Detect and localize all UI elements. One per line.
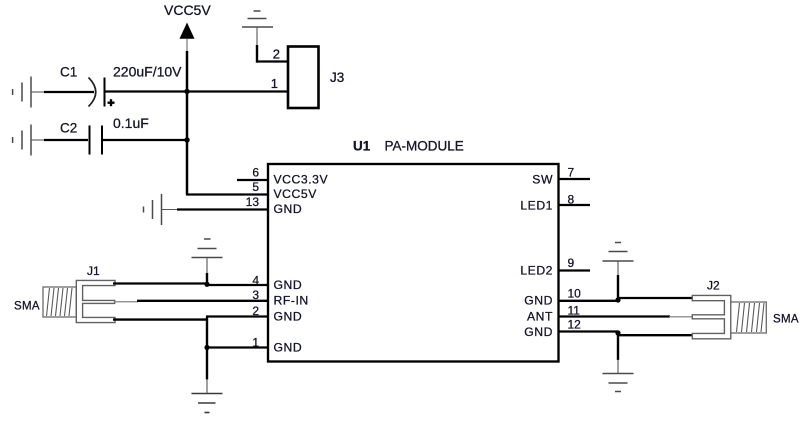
pin 1 GND (206, 346, 268, 348)
svg-text:J2: J2 (707, 279, 720, 293)
svg-text:11: 11 (568, 304, 581, 318)
node junction rail/C1 wire (184, 89, 189, 94)
ground (pin 13) (144, 194, 162, 225)
capacitor C1 (60, 64, 182, 107)
svg-text:VCC5V: VCC5V (164, 2, 211, 18)
svg-text:GND: GND (274, 278, 303, 292)
fork body (76, 280, 115, 322)
power symbol VCC5V (164, 2, 211, 52)
pin 5 VCC5V (186, 193, 268, 195)
svg-text:U1: U1 (353, 139, 371, 154)
ground (above pin 4 junction) (192, 239, 223, 258)
svg-text:2: 2 (252, 304, 259, 318)
svg-text:12: 12 (568, 318, 582, 332)
pin 11 ANT (559, 315, 671, 317)
connector J2 SMA (692, 279, 799, 339)
connector J1 SMA (14, 264, 115, 323)
ground (below pin 12) (603, 374, 634, 392)
svg-text:4: 4 (252, 273, 259, 287)
svg-text:220uF/10V: 220uF/10V (113, 64, 182, 80)
svg-text:C2: C2 (60, 121, 77, 136)
pin 6 VCC3.3V (237, 179, 268, 181)
svg-text:GND: GND (524, 325, 553, 339)
svg-text:GND: GND (274, 202, 303, 216)
svg-text:10: 10 (568, 287, 582, 301)
svg-text:SMA: SMA (14, 301, 40, 313)
wire VCC rail vertical (186, 51, 189, 195)
svg-text:PA-MODULE: PA-MODULE (385, 139, 464, 154)
svg-text:0.1uF: 0.1uF (113, 115, 149, 131)
node junction pin1 (204, 345, 209, 350)
svg-text:C1: C1 (60, 65, 77, 80)
wire J1 bottom to pin2 junction (113, 318, 208, 320)
svg-text:13: 13 (246, 195, 260, 209)
svg-text:LED1: LED1 (520, 199, 553, 213)
node junction rail/C2 wire (184, 137, 189, 142)
wire gnd to pin4 (206, 258, 208, 275)
threaded barrel (731, 302, 767, 333)
wire gnd to pin10 (617, 261, 619, 276)
svg-text:J1: J1 (87, 264, 100, 278)
wire C2 to rail (103, 139, 187, 141)
svg-text:SMA: SMA (773, 314, 799, 326)
wire C1 left (31, 91, 45, 93)
pin 7 SW (559, 178, 591, 180)
svg-text:7: 7 (568, 166, 575, 180)
svg-text:5: 5 (252, 180, 259, 194)
svg-text:2: 2 (273, 47, 280, 62)
pin 4 GND (206, 284, 268, 286)
svg-text:VCC5V: VCC5V (274, 187, 318, 201)
wire ANT thin to J2 middle (669, 316, 693, 318)
svg-text:1: 1 (271, 76, 278, 91)
pin 12 GND (559, 330, 619, 332)
IC U1 PA-MODULE box (268, 164, 559, 362)
pin 8 LED1 (559, 204, 591, 206)
wire J1 top to pin4 junction (113, 282, 208, 284)
wire vertical pin12 to lower gnd (617, 332, 619, 360)
wire C2 left (31, 139, 45, 141)
ground (above J3) (242, 11, 273, 27)
wire J3 pin2 (256, 27, 258, 46)
svg-text:6: 6 (252, 166, 259, 180)
pin 2 GND (206, 315, 268, 317)
ground (left of C2) (13, 125, 31, 156)
svg-text:9: 9 (568, 256, 575, 270)
ground (above pin 10 junction) (603, 243, 634, 262)
wire pin10 junction to J2 top (617, 297, 693, 299)
svg-text:J3: J3 (330, 70, 344, 85)
pin 3 RF-IN (137, 300, 268, 302)
wire C1 to J3 pin1 (105, 90, 288, 92)
svg-text:GND: GND (524, 294, 553, 308)
pin 13 GND (162, 209, 179, 211)
svg-text:8: 8 (568, 193, 575, 207)
pin 9 LED2 (559, 269, 591, 271)
svg-text:GND: GND (274, 310, 303, 324)
wire pin12 junction to J2 bottom (617, 334, 693, 336)
svg-text:3: 3 (252, 288, 259, 302)
fork body (692, 295, 731, 338)
svg-text:ANT: ANT (527, 310, 553, 324)
wire vertical pin2 to lower gnd (206, 317, 208, 380)
svg-text:1: 1 (252, 335, 259, 349)
svg-text:VCC3.3V: VCC3.3V (274, 173, 329, 187)
wire J1 middle thin (114, 301, 138, 303)
ground (left of C1) (13, 77, 31, 108)
threaded barrel (43, 287, 76, 317)
pin 10 GND (559, 300, 619, 302)
svg-text:SW: SW (532, 173, 553, 187)
ground (below pin 1) (192, 394, 223, 413)
svg-text:RF-IN: RF-IN (274, 294, 309, 308)
svg-text:LED2: LED2 (520, 264, 553, 278)
capacitor C2 (60, 115, 149, 155)
svg-text:GND: GND (274, 341, 303, 355)
connector J3 (271, 47, 345, 109)
